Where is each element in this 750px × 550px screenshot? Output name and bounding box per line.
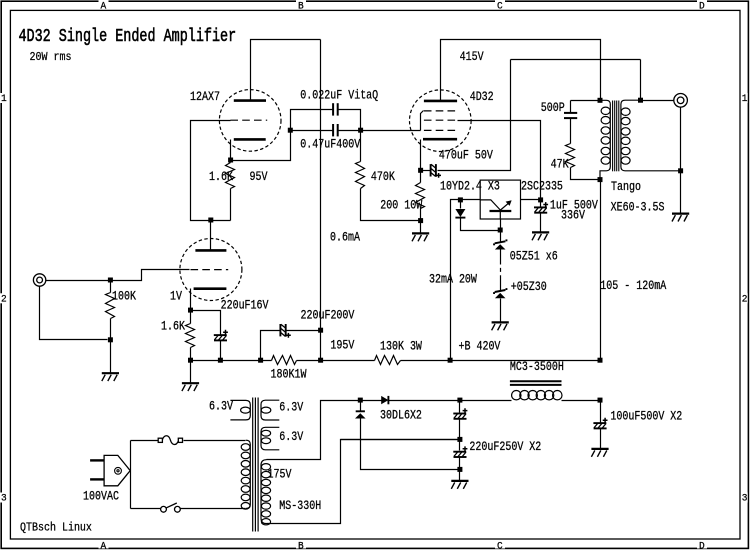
wire 220uF200V branch	[261, 331, 281, 361]
svg-text:D: D	[699, 0, 705, 11]
wire 470K bottom	[361, 189, 419, 221]
svg-text:12AX7: 12AX7	[190, 91, 220, 104]
wire V1a cathode to coupling row	[231, 131, 291, 161]
AC plug body	[104, 455, 130, 485]
wire feedback rail to OPT secondary	[511, 59, 641, 61]
ruler mark A top	[99, 0, 109, 9]
resistor 1.6K V1a cathode	[226, 163, 235, 189]
svg-text:105 - 120mA: 105 - 120mA	[600, 280, 666, 293]
wire Q1 emitter down	[500, 219, 502, 231]
resistor 180K1W	[272, 356, 297, 365]
wire fuse to primary	[184, 440, 246, 442]
svg-text:3: 3	[1, 492, 7, 504]
wire 1.6K V1a bottom	[230, 189, 232, 221]
wire shunt diode to return	[361, 419, 458, 470]
svg-text:95V: 95V	[250, 171, 268, 184]
wire choke out to 100uF	[600, 401, 602, 423]
V1b cathode bar	[194, 287, 227, 290]
wire output jack sleeve	[680, 108, 682, 214]
V2 grid1 dashes	[424, 110, 457, 112]
svg-text:0.47uF400V: 0.47uF400V	[300, 138, 360, 151]
Q1 symbol	[480, 200, 511, 219]
svg-text:30DL6X2: 30DL6X2	[380, 410, 422, 423]
svg-text:D: D	[699, 540, 705, 550]
wire zener1 lead	[500, 231, 502, 242]
wire zener to ground	[500, 299, 502, 323]
wire 100uF to ground	[600, 428, 602, 449]
wire primary bottom to switch	[131, 508, 161, 510]
ruler mark 3 right	[741, 493, 748, 503]
node input at 100K top	[108, 278, 113, 283]
svg-text:130K 3W: 130K 3W	[380, 341, 422, 354]
svg-text:+05Z30: +05Z30	[511, 281, 547, 294]
node secondary bottom	[678, 168, 683, 173]
wire diode bottom to emitter	[461, 219, 501, 231]
node 220uF200V at rail	[318, 328, 323, 333]
V1a cathode bar	[234, 138, 266, 141]
node 1.6K bottom	[188, 358, 193, 363]
OPT secondary winding outline	[621, 100, 681, 171]
wire V1a plate to rail	[251, 40, 321, 101]
svg-text:XE60-3.5S: XE60-3.5S	[611, 202, 665, 215]
node V1a cathode junction	[228, 158, 233, 163]
wire 175V top to rect row	[267, 401, 361, 460]
PT 6.3V right1 loops	[261, 407, 271, 413]
V1a plate bar	[234, 99, 266, 102]
wire row 1.6K to 180K	[191, 360, 272, 362]
wire zener stack dashed x6	[500, 261, 502, 277]
wire V1a grid feedback	[191, 121, 231, 221]
svg-text:220uF200V: 220uF200V	[301, 310, 355, 323]
capacitor 470uF 50V cathode	[431, 164, 441, 178]
wire 500P top lead	[570, 101, 572, 113]
wire between reservoir caps	[459, 419, 461, 440]
PT core laminations	[253, 398, 258, 532]
ruler mark B bottom	[296, 541, 306, 549]
svg-text:C: C	[497, 0, 503, 11]
capacitor 500P zobel	[564, 113, 577, 118]
wire V2 cathode lead	[420, 140, 422, 171]
input jack J1	[33, 274, 45, 286]
wire 180K to rail node	[297, 360, 321, 362]
wire switch to primary	[181, 508, 246, 510]
V1a grid dashes	[230, 119, 267, 121]
wire coupling upper left	[291, 110, 333, 131]
wire plug vertical	[130, 441, 132, 509]
wire cap2 to ground	[459, 457, 461, 481]
PT 6.3V right2 winding outline	[261, 427, 279, 450]
PT primary winding outline	[246, 440, 251, 508]
wire 220uF200V to rail	[286, 330, 321, 332]
ruler mark C bottom	[495, 541, 505, 549]
svg-text:20W rms: 20W rms	[30, 51, 72, 64]
node bypass cap bottom	[218, 358, 223, 363]
svg-text:100K: 100K	[112, 291, 136, 304]
ruler mark 2 left	[0, 293, 9, 303]
node +B at bias riser	[448, 358, 453, 363]
wire diode top lead	[460, 200, 462, 209]
wire zener stack solid	[500, 250, 502, 261]
wire secondary riser	[640, 60, 642, 101]
output jack J2	[674, 94, 688, 108]
ground under 100uF	[591, 449, 608, 457]
wire 130K to +B	[401, 360, 451, 362]
svg-text:470K: 470K	[371, 171, 395, 184]
ground under 200 10W	[412, 233, 429, 241]
wire 500P to 47K	[570, 119, 572, 144]
capacitor 220uF250V lower	[453, 446, 467, 457]
wire cathode cap to feedback riser	[438, 60, 511, 171]
wire 1.6K bottom to ground	[190, 361, 192, 384]
ground under 220uF250V	[451, 481, 468, 489]
wire choke right lead	[562, 400, 601, 402]
svg-text:6.3V: 6.3V	[279, 431, 303, 444]
ground under 1.6K V1b	[182, 383, 199, 391]
wire 200ohm top	[420, 171, 422, 183]
wire V1b cathode to bypass cap	[191, 311, 221, 335]
svg-text:500P: 500P	[541, 102, 565, 115]
wire bypass cap to row	[220, 341, 222, 361]
svg-text:415V: 415V	[460, 51, 484, 64]
power switch S1	[161, 503, 181, 512]
svg-text:32mA 20W: 32mA 20W	[429, 274, 477, 287]
wire shunt diode top lead	[360, 401, 362, 412]
PT 6.3V left loops	[241, 407, 251, 413]
svg-text:180K1W: 180K1W	[271, 369, 307, 382]
svg-text:1: 1	[1, 93, 7, 105]
diode 30DL6X2 series	[381, 396, 388, 404]
node V1a grid to V1b plate	[208, 218, 213, 223]
resistor 1.6K V1b cathode	[186, 324, 195, 348]
wire 1.6K lead top	[190, 311, 192, 324]
tube V1b 12AX7 triode envelope	[180, 239, 242, 301]
PT 6.3V left winding outline	[230, 400, 250, 420]
node 100K bottom junction	[108, 337, 113, 342]
ruler mark 1 right	[741, 93, 748, 103]
zener diode +05Z30	[495, 290, 506, 292]
svg-text:1.6K: 1.6K	[209, 171, 233, 184]
svg-text:MC3-3500H: MC3-3500H	[510, 361, 564, 374]
plug prongs	[90, 460, 104, 479]
svg-text:1: 1	[742, 93, 748, 105]
svg-text:4D32 Single Ended Amplifier: 4D32 Single Ended Amplifier	[19, 25, 237, 47]
V2 plate bar	[424, 100, 457, 103]
node V2 cathode	[418, 168, 423, 173]
svg-text:4D32: 4D32	[470, 91, 494, 104]
node screen 336V	[538, 197, 543, 202]
svg-text:336V: 336V	[561, 210, 585, 223]
svg-text:2: 2	[742, 293, 748, 305]
choke MC3-3500H core	[510, 381, 562, 385]
wire 100K to ground	[110, 340, 112, 374]
node +B at OPT riser	[598, 358, 603, 363]
node OPT secondary top	[638, 98, 643, 103]
wire 470K top lead	[360, 131, 362, 162]
fuse F1	[158, 436, 182, 445]
capacitor 100uF500V X2	[593, 418, 607, 429]
wire 1uF top lead	[540, 200, 542, 207]
svg-text:2: 2	[1, 293, 7, 305]
resistor 470K grid leak	[356, 162, 365, 189]
ruler mark D bottom	[697, 541, 707, 549]
wire 1.6K to row	[190, 348, 192, 361]
wire 175V bottom to HV mid	[267, 440, 460, 524]
node 195V rail	[318, 358, 323, 363]
choke MC3-3500H loops	[512, 391, 562, 400]
wire V1a cathode lead	[230, 140, 232, 161]
PT 175V winding outline	[262, 459, 264, 461]
svg-text:B: B	[298, 0, 304, 11]
wire input jack to V1b grid	[46, 270, 190, 281]
resistor 200 10W cathode	[416, 183, 425, 209]
node rectifier output	[358, 398, 363, 403]
svg-text:A: A	[101, 0, 107, 11]
svg-text:2SC2335: 2SC2335	[521, 181, 563, 194]
capacitor 1uF 500V	[534, 202, 548, 213]
svg-text:100uF500V X2: 100uF500V X2	[610, 411, 682, 424]
wire zener stack solid2	[500, 277, 502, 291]
wire +B row to OPT riser	[451, 360, 601, 362]
node coupling left	[288, 128, 293, 133]
wire cathode to 470uF	[421, 170, 431, 172]
wire plate supply rail down to 195V node	[320, 40, 322, 361]
wire input jack sleeve down	[40, 287, 108, 340]
ruler mark B top	[296, 0, 306, 9]
OPT primary loops	[601, 107, 610, 164]
capacitor 0.47uF400V	[333, 124, 338, 136]
svg-text:220uF250V X2: 220uF250V X2	[469, 441, 541, 454]
ground under output jack	[672, 214, 689, 222]
wire 500P top to primary top	[571, 100, 601, 102]
ruler mark 1 left	[0, 93, 9, 103]
svg-text:Tango: Tango	[611, 181, 641, 194]
svg-text:1V: 1V	[170, 291, 182, 304]
svg-text:05Z51 x6: 05Z51 x6	[510, 251, 558, 264]
svg-text:B: B	[298, 540, 304, 550]
svg-text:100VAC: 100VAC	[83, 491, 119, 504]
node OPT primary top 415V	[598, 98, 603, 103]
node reservoir bottom return	[457, 467, 462, 472]
diode 10YD2.4 X3	[455, 209, 465, 217]
wire OPT primary bottom to B+ row	[600, 180, 602, 361]
resistor 130K 3W	[375, 356, 401, 365]
AC plug center mark	[115, 467, 122, 474]
svg-text:A: A	[101, 540, 107, 550]
PT 6.3V right2 loops	[261, 430, 270, 443]
node emitter zener junction	[498, 228, 503, 233]
ruler mark D top	[697, 0, 707, 9]
wire base to +B riser	[451, 200, 481, 361]
svg-text:47K: 47K	[551, 159, 569, 172]
wire coupling upper right	[339, 110, 361, 131]
node base diode junction	[458, 197, 463, 202]
diode 30DL6X2 shunt	[356, 410, 365, 412]
node choke out	[598, 398, 603, 403]
wire 47K bottom to primary bottom	[571, 168, 598, 180]
OPT primary winding outline	[600, 100, 610, 179]
V2 cathode bar	[423, 138, 457, 141]
wire V2 g1 hook	[421, 111, 424, 131]
V2 grid3 dashes	[424, 129, 457, 131]
resistor 47K zobel	[566, 144, 575, 168]
wire diode to reservoir	[389, 400, 460, 402]
wire 1uF to ground	[540, 214, 542, 233]
wire V2 screen to regulator	[458, 121, 541, 200]
resistor 100K grid	[106, 293, 115, 319]
wire 100K top lead	[110, 281, 112, 293]
V2 grid2 dashes	[424, 119, 457, 121]
tube V2 4D32 envelope	[410, 90, 472, 152]
wire rect to diode	[361, 400, 382, 402]
ground under 1uF	[532, 232, 549, 240]
ruler mark C top	[495, 0, 505, 9]
svg-text:0.6mA: 0.6mA	[330, 232, 360, 245]
svg-text:3: 3	[742, 492, 748, 504]
node between reservoir caps	[457, 437, 462, 442]
V1b grid dashes	[191, 269, 229, 271]
OPT core laminations	[613, 101, 619, 172]
node reservoir top	[457, 398, 462, 403]
ground under 100K	[102, 373, 119, 381]
V1b plate bar	[195, 249, 226, 252]
PT primary loops	[241, 444, 250, 509]
node OPT primary bottom	[598, 177, 603, 182]
wire secondary to output jack	[641, 100, 674, 102]
wire cap2 top lead	[459, 440, 461, 451]
wire V1b plate lead up	[210, 221, 212, 251]
svg-text:200 10W: 200 10W	[380, 200, 422, 213]
wire V2 plate to 415V rail	[441, 40, 601, 101]
PT 175V loops	[261, 464, 270, 525]
PT 175V winding bracket	[261, 460, 267, 524]
wire 100K bottom lead	[110, 319, 112, 340]
svg-text:6.3V: 6.3V	[279, 402, 303, 415]
svg-text:220uF16V: 220uF16V	[221, 299, 269, 312]
tube V1a 12AX7 triode envelope	[219, 90, 281, 152]
node V1b cathode junction	[188, 308, 193, 313]
node coupling right	[358, 128, 363, 133]
wire primary top to fuse	[131, 440, 159, 442]
svg-text:470uF 50V: 470uF 50V	[439, 150, 493, 163]
capacitor 220uF200V	[280, 324, 290, 338]
svg-text:+B 420V: +B 420V	[459, 341, 501, 354]
wire 200ohm bottom	[420, 209, 422, 221]
wire coupling lower left	[291, 130, 333, 132]
svg-text:C: C	[497, 540, 503, 550]
PT 6.3V right1 winding outline	[261, 400, 279, 420]
svg-text:QTBsch Linux: QTBsch Linux	[20, 522, 92, 535]
ground under zener stack	[492, 322, 509, 330]
wire HV mid to cap node	[341, 439, 458, 441]
zener diode 05Z51 x6	[495, 241, 506, 243]
OPT secondary loops	[621, 108, 630, 164]
transistor Q1 2SC2335 box	[480, 180, 520, 219]
svg-text:6.3V: 6.3V	[209, 401, 233, 414]
ruler mark 3 left	[0, 493, 9, 503]
capacitor 0.022uF VitaQ	[333, 103, 338, 115]
wire choke left lead	[460, 400, 512, 402]
svg-text:MS-330H: MS-330H	[279, 500, 321, 513]
ruler mark A bottom	[99, 541, 109, 549]
svg-text:10YD2.4 X3: 10YD2.4 X3	[440, 181, 500, 194]
svg-text:0.022uF VitaQ: 0.022uF VitaQ	[300, 90, 378, 103]
svg-text:195V: 195V	[330, 340, 354, 353]
wire coupling output to 4D32 grid	[339, 130, 421, 132]
ruler mark 2 right	[741, 293, 748, 303]
svg-text:1.6K: 1.6K	[161, 321, 185, 334]
wire 195V to 130K	[321, 360, 375, 362]
wire V1b cathode lead	[190, 289, 192, 311]
node 200ohm bottom	[418, 218, 423, 223]
node 195V row left	[258, 358, 263, 363]
wire reservoir top lead	[459, 401, 461, 413]
wire cathode res to ground	[420, 221, 422, 234]
capacitor 220uF16V cathode bypass	[214, 330, 228, 341]
capacitor 220uF250V upper	[453, 408, 467, 419]
wire collector to screen node	[521, 199, 541, 201]
